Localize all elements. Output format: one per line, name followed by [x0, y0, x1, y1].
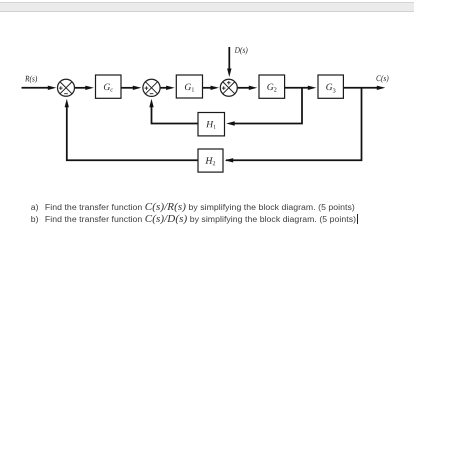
arrowhead: into G1	[166, 86, 175, 90]
node label D(s)	[235, 47, 248, 55]
wire: R(s) input to summer S1	[22, 87, 51, 89]
wire: takeoff after G3 down to H2 row	[226, 88, 362, 161]
wire: G3 to C(s) output	[343, 87, 378, 89]
arrowhead: into S3	[211, 86, 220, 90]
summing junction S3	[220, 79, 237, 96]
block Gc	[96, 75, 122, 98]
wire: Gc to summer S2	[121, 87, 134, 89]
sign - at S2 bottom input	[150, 93, 154, 95]
arrowhead: into G2	[249, 86, 257, 90]
node label C(s)	[376, 75, 388, 83]
arrowhead: into S1	[48, 86, 57, 90]
arrowhead: into G3	[308, 86, 317, 90]
arrowhead: H2 feedback up into S1	[65, 99, 69, 108]
question line b	[31, 213, 358, 225]
top gray toolbar strip	[0, 2, 414, 12]
sign + at S3 top input	[227, 81, 231, 85]
sign + at S2 left input	[145, 86, 149, 90]
arrowhead: into H2 right side	[225, 158, 234, 162]
wire: D(s) input drop to S3	[228, 47, 230, 70]
block G2	[259, 75, 285, 98]
wire: S3 to G2	[237, 87, 250, 89]
summing junction S2	[143, 79, 160, 96]
arrowhead: into Gc	[85, 86, 94, 90]
sign + at S1 left input	[59, 86, 63, 90]
arrowhead: into H1 right side	[226, 121, 235, 125]
wire: G2 to G3 with takeoff node	[285, 87, 310, 89]
node label R(s)	[25, 76, 37, 84]
arrowhead: into S2	[133, 86, 142, 90]
wire: H2 output left then up to S1	[67, 104, 198, 161]
block H1	[198, 113, 225, 136]
wire: S1 to Gc	[75, 87, 88, 89]
arrowhead: C(s) output	[377, 86, 386, 90]
wire: takeoff after G2 down to H1 row	[231, 88, 303, 124]
block G3	[318, 75, 343, 98]
sign - at S1 bottom input	[64, 93, 68, 95]
summing junction S1	[58, 79, 75, 96]
block H2	[198, 149, 223, 172]
wire: H1 output left then up to S2	[152, 103, 199, 124]
arrowhead: D(s) down into S3	[227, 69, 231, 78]
block G1	[176, 75, 202, 98]
wire: S2 to G1	[160, 87, 168, 89]
sign + at S3 left input	[222, 86, 226, 90]
arrowhead: H1 feedback up into S2	[149, 99, 153, 108]
wire: G1 to summer S3	[203, 87, 213, 89]
question line a	[31, 201, 355, 213]
